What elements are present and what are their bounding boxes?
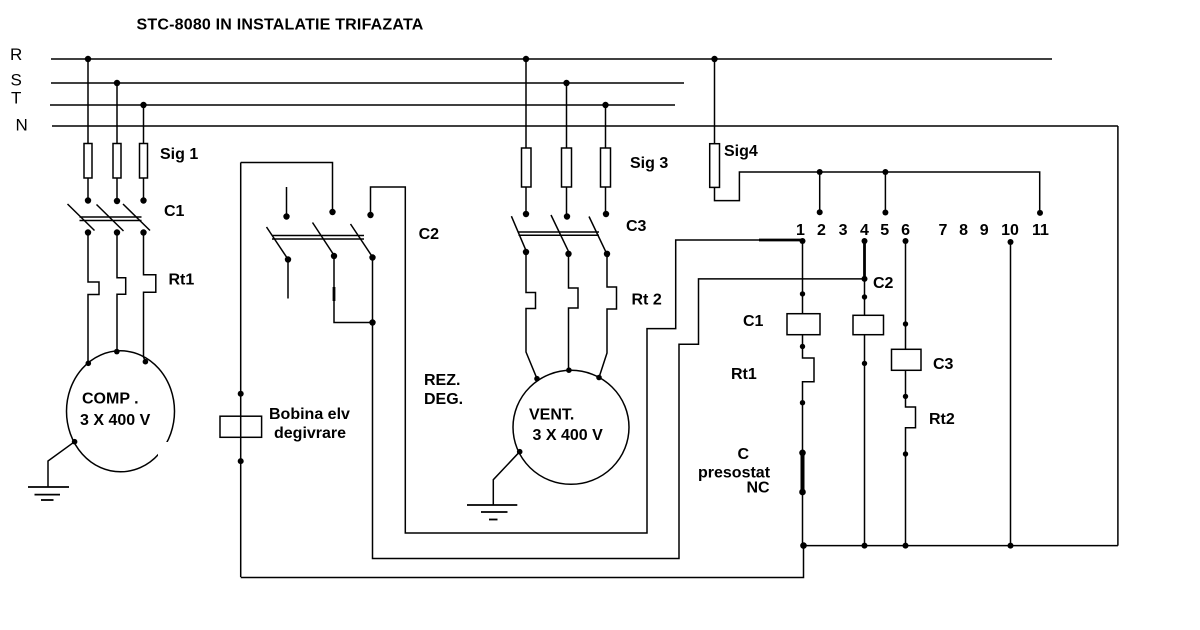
thermal relay Rt2 pole2 wire to motor [569,254,579,370]
wire terminal 10 to bus [1010,242,1012,546]
junction R/Sig4 [711,56,717,62]
thermal relay Rt2 pole1 wire to motor [526,252,537,379]
gap in COMP circle outline [158,442,169,456]
pressure switch C presostat NC (closed contact) [698,446,806,497]
svg-text:11: 11 [1032,222,1049,239]
junction T/Sig3 [602,102,608,108]
svg-text:C2: C2 [873,275,894,292]
heater label REZ. DEG. [424,372,463,408]
thermal relay Rt1 pole1 wire to motor [88,233,99,364]
ground (COMP) [28,487,69,500]
svg-text:3 X 400 V: 3 X 400 V [80,412,151,429]
junction T/Sig1 [140,102,146,108]
contactor C3 [511,211,646,257]
wire C2 pole3 bottom to junction [372,258,374,323]
svg-text:NC: NC [747,480,771,497]
svg-text:REZ.: REZ. [424,372,460,389]
thermal relay Rt2 pole3 wire to motor [599,254,617,378]
svg-text:Sig 1: Sig 1 [160,146,198,163]
svg-text:1: 1 [796,222,805,239]
junction above coil C1 [800,291,805,296]
svg-text:degivrare: degivrare [274,425,346,442]
wire motor COMP to ground [48,439,77,487]
svg-text:T: T [11,89,21,108]
svg-text:Rt1: Rt1 [169,272,195,289]
terminal 2 dot [817,209,823,215]
svg-text:Rt 2: Rt 2 [632,292,662,309]
wire control column C3 (with Rt2 contact jog) [906,241,916,546]
svg-text:R: R [10,45,22,64]
wire T to fuse Sig1 pole3 [143,105,145,201]
junction bus/bobina return [800,542,807,549]
wire control column C1 (terminal1 to bus, with Rt1 contact jog) [803,241,815,546]
svg-text:C2: C2 [419,226,440,243]
wire R to fuse Sig1 pole1 [87,59,89,201]
control bottom bus [803,545,1118,547]
coil C2 [853,315,884,334]
contactor C1 [68,197,185,235]
svg-text:3 X 400 V: 3 X 400 V [533,427,604,444]
wire motor VENT to ground [493,449,522,505]
motor VENT 3x400V [513,367,629,484]
wire control column C2 [864,279,866,546]
svg-text:3: 3 [839,222,848,239]
junction S/Sig1 [114,80,120,86]
wire bobina column [240,163,242,578]
svg-text:VENT.: VENT. [529,407,574,424]
svg-text:5: 5 [880,222,889,239]
svg-text:Rt1: Rt1 [731,366,757,383]
svg-text:9: 9 [980,222,989,239]
coil Bobina elv degivrare [220,406,350,442]
svg-text:Sig4: Sig4 [724,143,758,160]
svg-text:10: 10 [1001,222,1019,239]
wire Sig4 to control feed rail [715,172,1040,213]
fuse Sig 1 [84,144,198,179]
thermal relay Rt1 pole2 wire to motor [117,233,126,352]
svg-text:C1: C1 [164,203,185,220]
junction C2 output [369,319,375,325]
wire R to fuse Sig3 pole1 [525,59,527,214]
terminal 1 dot [800,238,806,244]
wire bold segment before terminal 1 [759,239,803,242]
terminal 6 dot [903,238,909,244]
junction bobina top [238,391,244,397]
junction above coil C2 [862,294,867,299]
svg-text:STC-8080 IN INSTALATIE TRIFAZA: STC-8080 IN INSTALATIE TRIFAZATA [137,17,424,34]
terminal 4 dot [862,238,868,244]
net R bus line [10,45,1052,64]
wire S to fuse Sig3 pole2 [566,83,568,217]
junction bus/C2 column [862,543,868,549]
coil C3 [892,349,954,373]
svg-text:C1: C1 [743,313,764,330]
svg-text:7: 7 [939,222,948,239]
wire T to fuse Sig3 pole3 [605,105,607,214]
wire C2 pole2 bottom to junction [334,256,373,323]
svg-text:6: 6 [901,222,910,239]
svg-text:S: S [11,71,22,90]
thermal relay Rt1 pole3 wire to motor [144,233,156,362]
svg-text:C: C [738,446,750,463]
svg-text:C3: C3 [933,356,954,373]
junction feed/terminal5 [882,169,888,175]
wire bobina top feed to C2 pole2 [241,163,333,213]
junction feed/terminal2 [817,169,823,175]
junction S/Sig3 [563,80,569,86]
svg-text:COMP .: COMP . [82,391,139,408]
junction below coil C3 [903,394,908,399]
junction above coil C3 [903,321,908,326]
svg-text:Sig 3: Sig 3 [630,155,668,172]
wire C2 pole2 thick segment [333,287,336,301]
wire R to fuse Sig4 [714,59,716,144]
svg-text:C3: C3 [626,218,647,235]
fuse Sig 3 [522,148,669,187]
junction R/Sig3 [523,56,529,62]
svg-text:DEG.: DEG. [424,391,463,408]
wire S to fuse Sig1 pole2 [116,83,118,201]
net T bus line [11,89,675,108]
junction bus/C3 column [903,543,909,549]
terminal strip numbers 1-11 [796,222,1049,239]
wire C2 pole3 top to terminal 1 (staircase) [371,187,803,533]
wire terminal 4 to coil C2 (bold) [863,241,866,279]
wire feed to terminal 5 [884,172,886,213]
junction bus/terminal10 column [1008,543,1014,549]
junction below coil C2 [862,361,867,366]
svg-text:8: 8 [959,222,968,239]
net S bus line [11,71,685,90]
svg-text:N: N [16,116,28,135]
wire feed to terminal 2 [819,172,821,212]
svg-text:Rt2: Rt2 [929,411,955,428]
terminal 10 dot [1008,239,1014,245]
terminal 11 dot [1037,210,1043,216]
svg-text:Bobina elv: Bobina elv [269,406,350,423]
junction C2 coil node [862,276,868,282]
junction below Rt1 contact [800,400,805,405]
junction below coil C1 [800,344,805,349]
junction bobina bottom [238,458,244,464]
ground (VENT) [467,505,517,520]
contactor C2 [267,187,440,263]
net N bus line [16,116,1118,135]
junction below Rt2 contact [903,451,908,456]
fuse Sig4 [710,143,758,187]
terminal 5 dot [882,210,888,216]
svg-text:4: 4 [860,222,869,239]
svg-text:2: 2 [817,222,826,239]
wire C2 output to coil C2 (staircase) [373,279,865,559]
motor COMP 3x400V [67,349,175,472]
wire bobina return to control bus [241,546,804,578]
wire N down right side [1117,126,1119,546]
wire C2 pole1 stub below (unused) [287,260,289,299]
junction R/Sig1 [85,56,91,62]
coil C1 [743,313,820,335]
